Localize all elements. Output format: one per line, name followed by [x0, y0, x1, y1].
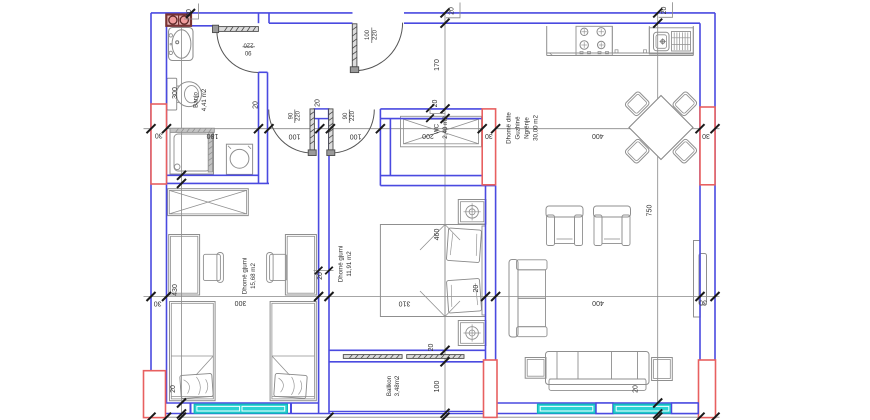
wall top outer left — [151, 12, 353, 14]
svg-text:20: 20 — [186, 9, 193, 17]
svg-text:4,41 m2: 4,41 m2 — [201, 88, 208, 111]
balcony sliding door leaf right — [407, 355, 464, 359]
wall right outer — [714, 13, 716, 414]
pillar left bottom corner — [144, 371, 166, 418]
svg-text:90: 90 — [343, 112, 349, 119]
living west wall — [485, 186, 487, 360]
window mullion — [596, 403, 613, 414]
wc wall south — [380, 175, 482, 177]
bed 2 pillow — [274, 373, 308, 398]
wall bottom outer — [151, 413, 715, 415]
svg-text:400: 400 — [592, 132, 604, 139]
hall door wall stub — [314, 109, 328, 119]
wall bottom inner bedroom — [151, 402, 319, 404]
svg-text:20: 20 — [633, 385, 640, 393]
dim extension vertical x=445 — [444, 13, 446, 417]
sofa left vertical — [509, 260, 518, 338]
svg-text:300: 300 — [235, 299, 247, 306]
double bed pillow top — [446, 228, 481, 263]
bedroom1 door leaf — [310, 109, 314, 150]
svg-text:30: 30 — [155, 132, 163, 139]
balcony railing — [329, 410, 486, 412]
shower cabin — [170, 130, 214, 175]
armchair 2 — [594, 206, 631, 217]
svg-text:90: 90 — [244, 49, 251, 55]
dim chain line lower y=296.5 — [144, 296, 720, 298]
svg-text:170: 170 — [434, 59, 441, 71]
toilet — [167, 78, 177, 110]
double bed pillow bottom — [446, 278, 481, 313]
svg-text:220: 220 — [373, 29, 379, 40]
ticks vertical x445 — [441, 8, 450, 17]
wall segment window right — [672, 403, 699, 414]
window living left — [538, 404, 596, 413]
entrance door arc — [355, 23, 403, 71]
svg-text:Dhomë gjumi: Dhomë gjumi — [242, 258, 249, 294]
bedroom1 door arc — [269, 110, 313, 154]
double bed — [380, 225, 485, 317]
svg-text:15,68 m2: 15,68 m2 — [250, 263, 257, 289]
shower glass top bar — [170, 128, 214, 132]
bathroom sink — [169, 28, 194, 61]
ticks lower chain — [147, 292, 156, 301]
entrance door leaf — [352, 24, 357, 67]
side table left — [525, 358, 546, 379]
window living right — [614, 404, 672, 413]
svg-text:180: 180 — [207, 132, 219, 139]
wall left inner — [166, 26, 168, 403]
svg-text:100: 100 — [289, 132, 301, 139]
sofa bottom — [546, 352, 650, 385]
wall notch bathroom door — [258, 13, 260, 23]
svg-text:20: 20 — [317, 272, 324, 280]
ticks vertical x657 — [653, 8, 662, 17]
dining chair NE — [672, 91, 698, 117]
pillar wc east — [482, 109, 495, 185]
svg-text:20: 20 — [661, 7, 668, 15]
svg-text:20: 20 — [428, 344, 435, 352]
svg-text:30: 30 — [485, 132, 493, 139]
wall top inner hall — [269, 22, 353, 24]
svg-text:300: 300 — [172, 87, 179, 99]
svg-text:30: 30 — [154, 299, 162, 306]
bedroom2 wall south — [329, 349, 486, 351]
ticks vertical x181 — [177, 171, 186, 180]
tick top wall at vent — [186, 9, 195, 18]
bedroom divider wall — [318, 119, 320, 414]
svg-text:400: 400 — [592, 299, 604, 306]
bathroom wall east — [258, 72, 260, 183]
svg-text:20: 20 — [253, 101, 260, 109]
dining chair SE — [672, 138, 698, 164]
svg-text:30,00 m2: 30,00 m2 — [533, 115, 540, 141]
svg-text:460: 460 — [434, 229, 441, 241]
wall top outer right — [404, 12, 715, 14]
svg-text:20: 20 — [449, 7, 456, 15]
wall right inner — [699, 23, 701, 403]
wc wall west — [379, 119, 381, 186]
dim chain line bottom y=417.2 — [144, 416, 720, 418]
double bed headboard — [482, 226, 486, 315]
svg-text:430: 430 — [172, 284, 179, 296]
svg-text:100: 100 — [434, 381, 441, 393]
chair 1 — [203, 254, 220, 280]
svg-text:220: 220 — [296, 110, 302, 121]
svg-text:30: 30 — [699, 299, 707, 306]
kitchen drainer grid — [672, 32, 691, 52]
wall left outer — [150, 13, 152, 414]
wall top inner right — [404, 22, 700, 24]
kitchen cabinet divider — [611, 26, 613, 53]
tv bench — [694, 241, 701, 318]
svg-text:90: 90 — [289, 112, 295, 119]
kitchen sink basin — [649, 28, 693, 54]
vent shaft box — [166, 15, 191, 26]
pillar balcony east — [484, 360, 498, 417]
bathroom wall south — [167, 174, 259, 176]
svg-text:220: 220 — [350, 110, 356, 121]
dim extension vertical x=657.7 — [657, 13, 659, 417]
svg-text:20: 20 — [315, 99, 322, 107]
desk 1 — [169, 235, 200, 296]
desk 2 — [285, 235, 316, 296]
bed 1 pillow — [180, 373, 214, 398]
dim chain line upper y=128.7 — [144, 128, 720, 130]
wardrobe — [168, 189, 249, 216]
wall bottom inner living — [496, 402, 715, 404]
bathroom door leaf — [219, 27, 259, 32]
svg-text:310: 310 — [399, 299, 411, 306]
dining chair NW — [624, 91, 650, 117]
svg-text:Dhomë dite: Dhomë dite — [506, 112, 513, 144]
svg-text:Ngrënje: Ngrënje — [524, 117, 531, 139]
bed 1 single — [170, 302, 216, 401]
svg-text:100: 100 — [350, 132, 362, 139]
dining chair SW — [624, 138, 650, 164]
washing machine — [226, 144, 252, 174]
balcony sliding door leaf left — [343, 355, 402, 359]
shower glass right bar — [208, 132, 212, 172]
svg-text:20: 20 — [473, 285, 480, 293]
bathroom door arc — [217, 31, 259, 73]
armchair 1 — [546, 206, 583, 217]
window bedroom1 — [194, 404, 287, 413]
wc wall north — [380, 108, 482, 110]
svg-text:3,48m2: 3,48m2 — [394, 375, 401, 396]
svg-text:Ballkon: Ballkon — [386, 375, 393, 396]
nightstand bottom — [458, 321, 486, 346]
kitchen fridge mark — [550, 53, 553, 56]
bed 2 single — [270, 302, 316, 401]
svg-text:750: 750 — [647, 205, 654, 217]
pillar left wall — [151, 104, 167, 184]
svg-text:2,40 m2: 2,40 m2 — [442, 116, 449, 139]
svg-text:11,91 m2: 11,91 m2 — [346, 251, 353, 277]
ticks bottom chain — [147, 413, 156, 420]
side table right — [652, 358, 673, 381]
chair 2 — [270, 254, 287, 280]
svg-text:20: 20 — [170, 385, 177, 393]
kitchen counter — [546, 26, 548, 56]
svg-text:Guzhinë: Guzhinë — [515, 116, 522, 140]
wc bathtub — [401, 116, 482, 147]
pillar right wall — [700, 107, 715, 185]
kitchen stove — [576, 26, 612, 55]
pillar right bottom corner — [699, 360, 716, 418]
tv screen — [699, 254, 707, 306]
svg-text:Banjo: Banjo — [193, 92, 200, 108]
ticks upper chain — [147, 124, 156, 133]
bedroom2 door arc — [331, 110, 375, 154]
svg-text:Dhomë gjumi: Dhomë gjumi — [338, 246, 345, 282]
svg-text:200: 200 — [422, 132, 434, 139]
wall top bathroom inner — [167, 25, 213, 27]
svg-text:WC: WC — [434, 123, 441, 134]
svg-text:100: 100 — [365, 29, 371, 40]
dim extension vertical x=181.5 — [181, 26, 183, 417]
dining table — [629, 96, 693, 160]
nightstand top — [458, 200, 486, 225]
bedroom2 door leaf — [329, 109, 333, 150]
svg-text:30: 30 — [702, 132, 710, 139]
